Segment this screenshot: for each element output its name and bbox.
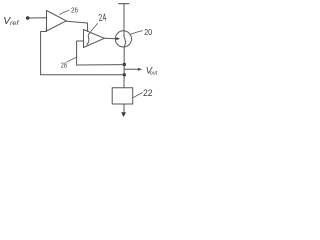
label 20 leader bbox=[131, 31, 143, 35]
supply terminal bar bbox=[119, 3, 129, 5]
svg-text:22: 22 bbox=[143, 88, 153, 99]
wire feedback to op-amp 26 horizontal bbox=[41, 74, 124, 76]
node junction dot lower (feedback to 26) bbox=[123, 73, 126, 76]
wire box 22 to ground arrow bbox=[123, 104, 125, 113]
arrowhead ground current bbox=[121, 112, 126, 117]
arrowhead Vout bbox=[138, 68, 142, 71]
op-amp 24 internal curve bbox=[87, 33, 90, 44]
wire feedback to op-amp 26 vertical bbox=[41, 30, 47, 75]
wire feedback 28 horizontal bbox=[77, 64, 124, 66]
wire op-amp 24 output to transistor 20 gate bbox=[104, 37, 116, 39]
wire op-amp 26 output to op-amp 24 top bbox=[66, 21, 87, 31]
label 24 leader bbox=[91, 24, 98, 32]
label 22 leader bbox=[133, 93, 143, 98]
svg-text:out: out bbox=[150, 71, 158, 77]
node Vref terminal dot bbox=[26, 16, 30, 20]
wire Vref to op-amp 26 input bbox=[30, 17, 47, 19]
node Vref label bbox=[3, 16, 20, 27]
label 28 leader bbox=[67, 57, 77, 62]
svg-text:26: 26 bbox=[71, 8, 78, 15]
transistor Q20 circle bbox=[115, 31, 131, 47]
svg-text:ref: ref bbox=[10, 20, 20, 27]
op-amp U24 bbox=[84, 30, 105, 48]
node junction dot upper (feedback 28) bbox=[123, 63, 126, 66]
arrowhead at transistor 20 gate bbox=[116, 37, 120, 40]
wire supply to transistor 20 top bbox=[123, 4, 125, 36]
wire Vout arrow bbox=[124, 68, 139, 70]
svg-text:24: 24 bbox=[98, 12, 107, 24]
wire transistor 20 bottom to box 22 bbox=[123, 47, 125, 88]
node Vout label bbox=[146, 66, 158, 77]
transistor Q20 inner bar bbox=[124, 36, 126, 47]
wire feedback 28 vertical bbox=[77, 41, 84, 65]
svg-text:20: 20 bbox=[144, 28, 153, 37]
box 22 (load) bbox=[112, 88, 133, 104]
op-amp U26 bbox=[47, 11, 67, 32]
svg-text:28: 28 bbox=[61, 61, 67, 70]
label 26 leader bbox=[60, 10, 70, 14]
